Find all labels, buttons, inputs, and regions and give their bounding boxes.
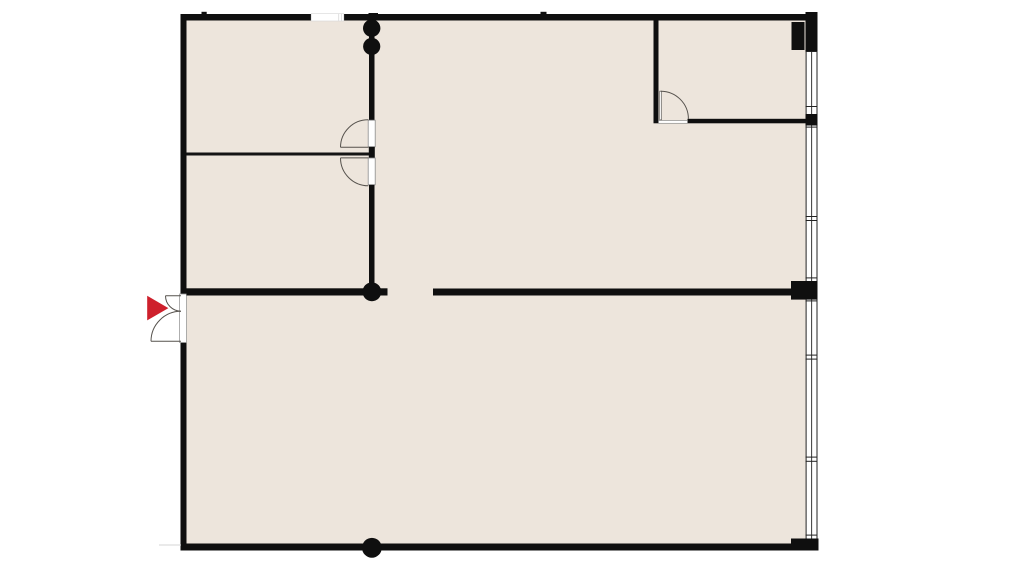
tick mark T2 above top wall bbox=[541, 12, 547, 14]
interior wall C bbox=[187, 288, 364, 295]
column C1 bbox=[363, 20, 380, 37]
column C3 at wall junction bbox=[363, 282, 382, 301]
column C2 bbox=[363, 38, 380, 55]
entry door upper leaf bbox=[166, 296, 182, 312]
window mullion tick y=220.5 bbox=[806, 220, 818, 221]
right wall block at wall D bbox=[791, 281, 818, 300]
interior wall A stub between doors bbox=[369, 147, 375, 158]
door D2 leaf and swing bbox=[341, 120, 369, 148]
column C4 on bottom wall bbox=[362, 538, 382, 558]
interior wall A segment above door D2 bbox=[369, 21, 375, 121]
window mullion tick y=461 bbox=[806, 461, 818, 462]
top-right corner wall block bbox=[806, 12, 818, 51]
interior wall D bbox=[433, 289, 791, 296]
tick mark T1 above top wall bbox=[202, 12, 207, 14]
exterior left wall lower segment bbox=[181, 343, 187, 551]
window mullion tick y=457 bbox=[806, 457, 818, 458]
door D3 opening bbox=[368, 158, 375, 185]
exterior top wall bbox=[181, 14, 807, 21]
door D2 opening bbox=[368, 120, 375, 147]
window mullion tick y=127 bbox=[806, 127, 818, 128]
window mullion tick y=106.5 bbox=[806, 106, 818, 107]
bottom-right corner wall block bbox=[791, 539, 819, 551]
right window band background bbox=[806, 51, 818, 544]
window mullion tick y=359 bbox=[806, 359, 818, 360]
interior wall E (top-right room, vertical) bbox=[654, 21, 659, 124]
thin partition wall B bbox=[187, 153, 370, 156]
exterior bottom wall bbox=[181, 544, 819, 551]
right wall block at wall F bbox=[806, 114, 818, 126]
faint leader line at bottom-left corner bbox=[159, 544, 181, 546]
entry door lower leaf bbox=[151, 311, 181, 341]
window mullion tick y=300.8 bbox=[806, 300, 818, 301]
door D3 leaf and swing bbox=[341, 158, 369, 186]
interior wall F (top-right room, horizontal) bbox=[688, 119, 806, 124]
shaft block in top-right room bbox=[792, 22, 805, 50]
window W1 in top wall bbox=[311, 14, 344, 21]
window mullion tick y=355 bbox=[806, 355, 818, 356]
tick mark T3 above top wall at interior wall A bbox=[369, 13, 379, 15]
window band middle glass line bbox=[810, 51, 813, 544]
window mullion tick y=51.5 bbox=[806, 51, 818, 52]
door D4 swing bbox=[661, 91, 689, 119]
entry arrow bbox=[147, 296, 168, 321]
window band left frame line bbox=[806, 51, 807, 544]
floor fill bbox=[183, 17, 806, 547]
interior wall A segment below door D3 bbox=[369, 185, 375, 292]
entry door frame in left wall bbox=[180, 294, 187, 343]
exterior left wall upper segment bbox=[181, 14, 187, 294]
window band right frame line bbox=[817, 51, 818, 544]
door D4 opening bbox=[659, 121, 688, 124]
wall stub right of column C3 bbox=[380, 288, 388, 295]
window mullion tick y=216.5 bbox=[806, 216, 818, 217]
window mullion tick y=535 bbox=[806, 535, 818, 536]
door D4 leaf bbox=[660, 91, 662, 120]
window mullion tick y=277.8 bbox=[806, 277, 818, 278]
